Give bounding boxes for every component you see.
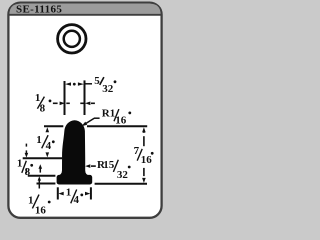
inner circle	[64, 31, 80, 47]
label 1/16 (bottom left)	[28, 194, 51, 216]
mid-left level line	[23, 157, 63, 159]
svg-text:1: 1	[28, 194, 34, 206]
svg-text:4: 4	[74, 194, 80, 206]
extension line left (stem width, x=65.4)	[64, 81, 66, 115]
tick between base lines	[38, 176, 41, 188]
stem-top level line right	[87, 125, 147, 127]
svg-text:5: 5	[94, 75, 100, 87]
svg-text:32: 32	[102, 83, 114, 95]
label 1/4 (bottom)	[66, 186, 83, 206]
dimension 7/16 (right)	[142, 127, 146, 183]
svg-text:1: 1	[36, 134, 42, 146]
svg-text:R1: R1	[102, 108, 115, 120]
svg-text:8: 8	[40, 103, 46, 115]
bottom dim extension line left	[57, 187, 59, 199]
svg-text:SE-11165: SE-11165	[16, 3, 62, 15]
base bottom extension line (left)	[37, 183, 56, 185]
label 7/16	[134, 145, 154, 166]
svg-text:1: 1	[17, 158, 23, 170]
label 1/8 (top left)	[35, 92, 51, 115]
label R15/32	[97, 159, 131, 181]
small down arrow far left with dashed tail	[25, 144, 27, 147]
up arrow below mid-left line	[39, 164, 43, 172]
bottom dim extension line right	[90, 187, 92, 199]
card frame	[8, 3, 161, 218]
header bar	[10, 4, 161, 14]
dimension 5/32 line	[65, 82, 92, 85]
base top extension line (left)	[28, 175, 56, 177]
svg-text:7: 7	[134, 145, 140, 157]
outer circle	[58, 25, 86, 53]
extension line right (stem width, x=84.4)	[84, 80, 86, 115]
svg-text:16: 16	[141, 154, 153, 166]
ground line right	[95, 183, 147, 185]
svg-text:32: 32	[117, 169, 128, 181]
dimension 1/4 (left) arrows	[46, 127, 50, 157]
label 1/8 (bottom left)	[17, 158, 33, 178]
label 1/4 (left)	[36, 134, 54, 152]
svg-text:15: 15	[103, 159, 115, 171]
page background	[0, 0, 170, 225]
svg-text:16: 16	[35, 204, 47, 216]
profile: stem with dome top	[57, 120, 89, 179]
leader R15/32	[85, 164, 96, 168]
label R1/16	[102, 108, 131, 127]
label 5/32	[94, 75, 116, 95]
stem-top level line left	[44, 125, 63, 127]
dimension 1/8 arrows (top)	[53, 102, 95, 106]
bottom dimension arrows	[58, 192, 90, 196]
header separator	[9, 14, 162, 16]
svg-text:1: 1	[66, 186, 72, 198]
profile: base bar	[57, 175, 93, 185]
svg-text:16: 16	[115, 114, 127, 126]
svg-text:4: 4	[46, 140, 52, 152]
leader R1/16	[82, 118, 100, 126]
